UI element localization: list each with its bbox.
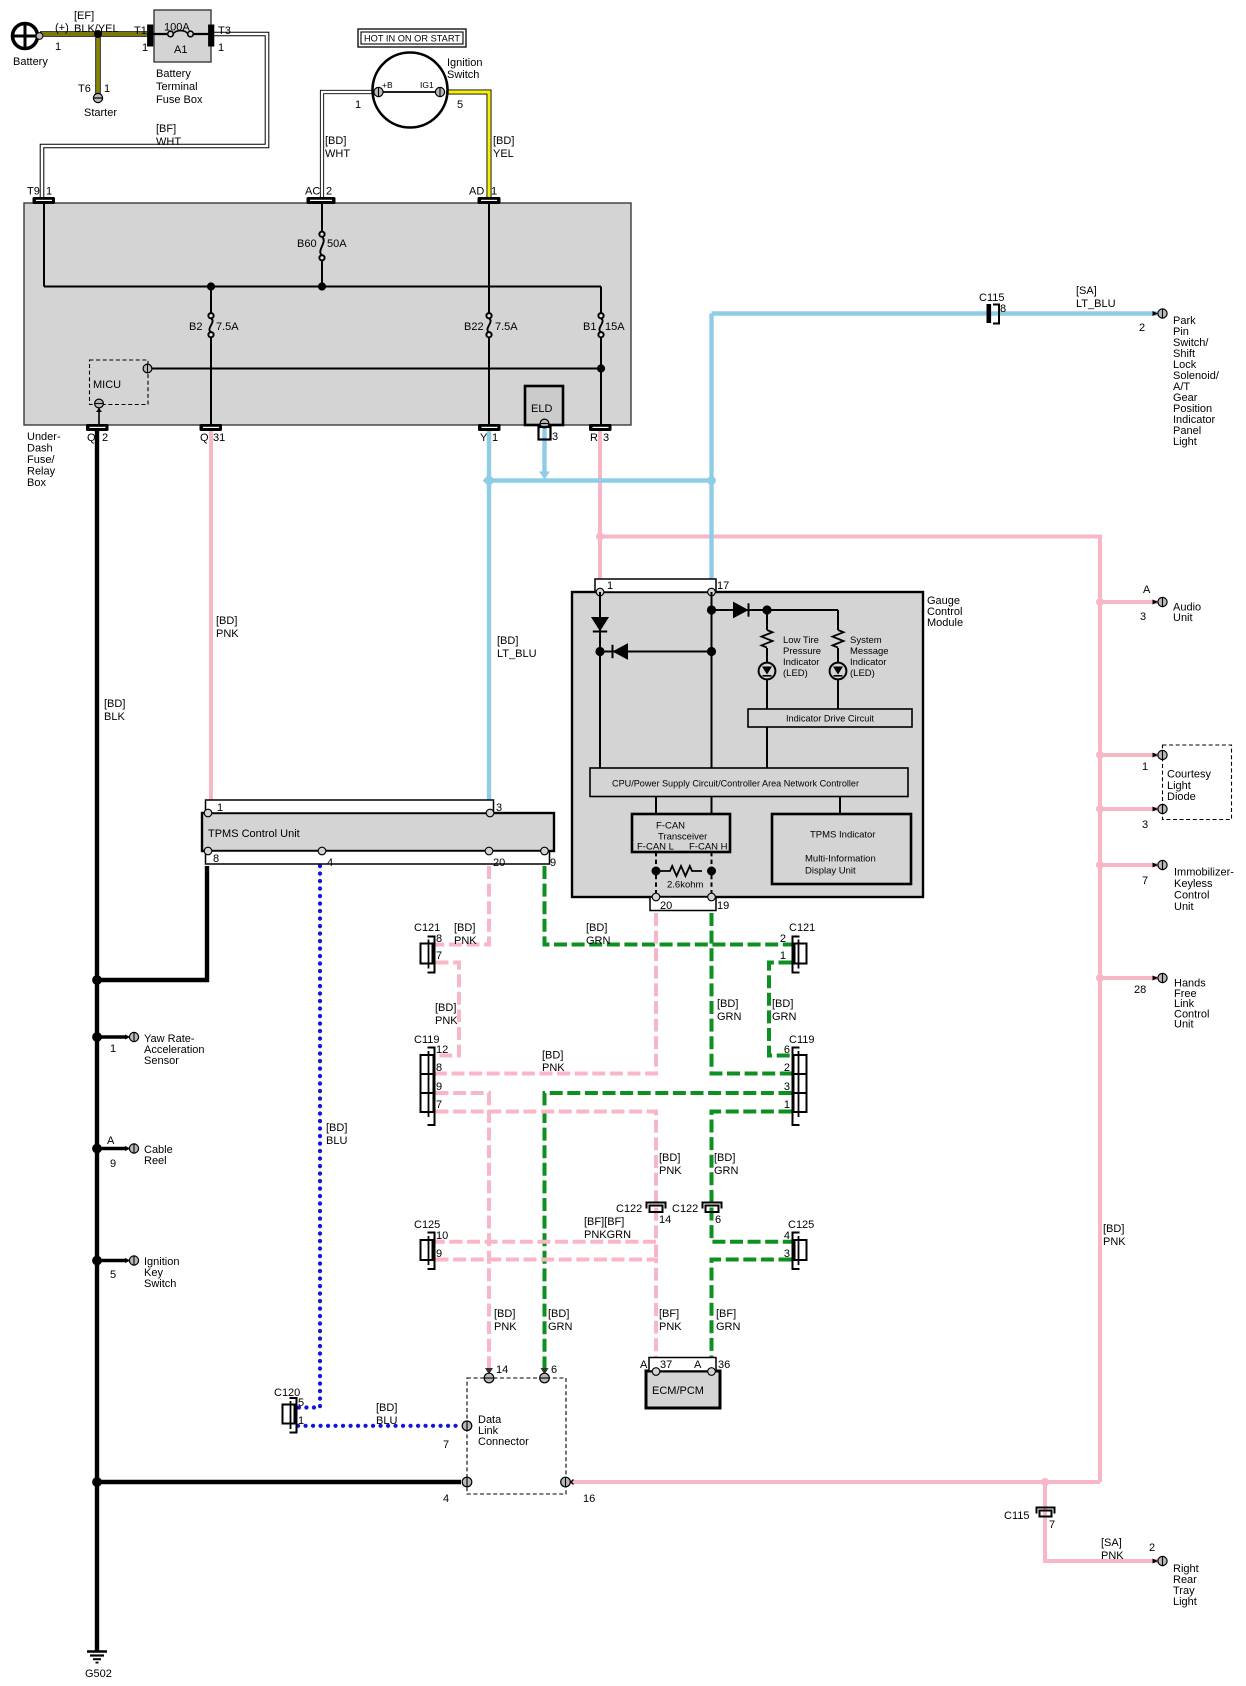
wire LT_BLU vertical to GCM pin17 / up to park pin switch	[709, 314, 713, 581]
svg-text:C119: C119	[789, 1034, 814, 1046]
svg-text:PNK: PNK	[494, 1321, 517, 1333]
svg-text:[EF]: [EF]	[74, 10, 94, 22]
svg-text:1: 1	[217, 802, 223, 814]
svg-text:PNK: PNK	[435, 1015, 458, 1027]
svg-text:[BF]: [BF]	[659, 1308, 679, 1320]
connector C125 left	[421, 1233, 435, 1270]
courtesy light diode dashed box	[1163, 745, 1232, 820]
svg-text:ECM/PCM: ECM/PCM	[652, 1385, 704, 1397]
svg-text:20: 20	[493, 857, 505, 869]
fuse B22 7.5A symbol	[486, 313, 491, 337]
MICU terminals	[143, 364, 152, 373]
svg-text:Box: Box	[27, 477, 46, 489]
svg-text:Message: Message	[850, 646, 889, 657]
wire [BD] BLU C120-1 to DLC7	[298, 1424, 462, 1428]
svg-text:T1: T1	[134, 25, 147, 37]
svg-text:Q: Q	[200, 432, 209, 444]
svg-text:R: R	[590, 432, 598, 444]
wire TPMS8 black	[99, 866, 207, 980]
svg-text:1: 1	[46, 186, 52, 198]
pink branch courtesy 1	[1100, 753, 1158, 757]
svg-text:1: 1	[142, 42, 148, 54]
wire [BD] BLK Q2 to ground G502	[95, 430, 99, 1651]
pink branch audio unit	[1100, 600, 1158, 604]
svg-text:GRN: GRN	[714, 1165, 739, 1177]
connector Y pin 1	[479, 425, 501, 431]
svg-text:MICU: MICU	[93, 379, 121, 391]
fuse B1 15A	[600, 287, 602, 425]
svg-text:Indicator Drive Circuit: Indicator Drive Circuit	[786, 714, 874, 725]
svg-text:5: 5	[298, 1397, 304, 1409]
resistors	[762, 630, 773, 648]
svg-text:Multi-Information: Multi-Information	[805, 854, 876, 865]
svg-text:YEL: YEL	[493, 148, 514, 160]
svg-text:3: 3	[603, 432, 609, 444]
svg-text:CPU/Power Supply Circuit/Contr: CPU/Power Supply Circuit/Controller Area…	[612, 779, 859, 790]
starter terminal	[93, 93, 102, 102]
svg-text:(LED): (LED)	[783, 668, 808, 679]
svg-text:Sensor: Sensor	[144, 1055, 179, 1067]
terminal courtesy light diode pin 1	[1153, 750, 1168, 759]
wire [BD]/[BF] GRN C119right-1 via C122-6 to ECM36 and C125right	[712, 1112, 792, 1242]
svg-text:Fuse Box: Fuse Box	[156, 94, 203, 106]
svg-text:1: 1	[104, 83, 110, 95]
svg-text:[BD]: [BD]	[104, 698, 125, 710]
svg-text:5: 5	[457, 99, 463, 111]
svg-text:9: 9	[550, 857, 556, 869]
F-CAN dashed stubs	[656, 852, 712, 897]
svg-text:Pressure: Pressure	[783, 646, 821, 657]
wire [BD] PNK GCM20 to C119-8	[436, 913, 657, 1074]
svg-text:1: 1	[784, 1099, 790, 1111]
connector C115 (blue wire)	[987, 304, 1000, 324]
connector C125 right	[793, 1233, 807, 1270]
svg-text:WHT: WHT	[325, 148, 350, 160]
svg-text:7.5A: 7.5A	[495, 321, 518, 333]
svg-text:7.5A: 7.5A	[216, 321, 239, 333]
wire [BD] PNK C119-9 to DLC14	[436, 1093, 490, 1368]
svg-text:2: 2	[102, 432, 108, 444]
svg-text:8: 8	[436, 1062, 442, 1074]
svg-text:19: 19	[717, 900, 729, 912]
svg-text:Fuse/: Fuse/	[27, 454, 55, 466]
ELD box	[525, 386, 563, 425]
svg-text:+B: +B	[382, 80, 393, 90]
svg-text:[BD]: [BD]	[548, 1308, 569, 1320]
svg-text:B60: B60	[297, 238, 317, 250]
svg-text:System: System	[850, 635, 882, 646]
svg-text:Switch: Switch	[447, 69, 479, 81]
connector T9 pin 1	[33, 198, 55, 204]
svg-text:[SA]: [SA]	[1076, 285, 1097, 297]
junction battery/starter	[94, 30, 102, 38]
indicator rail 1	[766, 610, 768, 709]
svg-text:8: 8	[436, 933, 442, 945]
svg-text:Courtesy: Courtesy	[1167, 769, 1212, 781]
svg-text:15A: 15A	[605, 321, 625, 333]
wire starter drop	[95, 32, 100, 95]
blue junctions	[483, 474, 496, 487]
wire T9 to bus	[43, 203, 45, 287]
svg-text:1: 1	[218, 42, 224, 54]
diode D1 down	[593, 618, 607, 630]
svg-text:37: 37	[660, 1359, 672, 1371]
svg-text:7: 7	[443, 1439, 449, 1451]
svg-text:GRN: GRN	[772, 1011, 797, 1023]
TPMS control unit box	[202, 813, 554, 851]
terminal immobilizer-keyless control unit pin 7	[1153, 860, 1168, 869]
svg-text:[BD]: [BD]	[454, 922, 475, 934]
svg-text:(LED): (LED)	[850, 668, 875, 679]
svg-text:6: 6	[551, 1364, 557, 1376]
svg-text:2: 2	[780, 933, 786, 945]
wire [SA] PNK bottom horizontal from DLC16	[569, 1480, 1100, 1484]
svg-text:T9: T9	[27, 186, 40, 198]
svg-text:PNK: PNK	[1103, 1236, 1126, 1248]
cross link with diode D2 left	[600, 651, 712, 653]
svg-text:Control: Control	[1174, 890, 1209, 902]
svg-text:2: 2	[784, 1062, 790, 1074]
LED system message	[830, 663, 847, 680]
GCM bottom connector 20/19	[650, 897, 716, 911]
svg-text:1: 1	[492, 432, 498, 444]
svg-text:Relay: Relay	[27, 466, 56, 478]
svg-text:C122: C122	[616, 1203, 642, 1215]
wire [BD] PNK Q31 to TPMS pin1	[209, 428, 213, 802]
svg-text:1: 1	[607, 580, 613, 592]
svg-text:[BD]: [BD]	[772, 998, 793, 1010]
svg-text:[BD]: [BD]	[717, 998, 738, 1010]
svg-text:7: 7	[1049, 1519, 1055, 1531]
svg-text:AD: AD	[469, 186, 484, 198]
svg-text:C120: C120	[274, 1387, 300, 1399]
wire [BD] PNK trunk to right units	[600, 537, 1100, 1483]
svg-text:1: 1	[55, 41, 61, 53]
svg-text:4: 4	[327, 857, 333, 869]
svg-text:Under-: Under-	[27, 431, 61, 443]
svg-text:2: 2	[1149, 1542, 1155, 1554]
wire LT_BLU Y1 down to TPMS pin3	[487, 428, 491, 802]
svg-text:[BD]: [BD]	[376, 1402, 397, 1414]
DLC pin 6	[540, 1373, 550, 1383]
MICU sense line	[152, 368, 601, 370]
svg-text:36: 36	[718, 1359, 730, 1371]
svg-text:BLU: BLU	[326, 1135, 347, 1147]
connector Q pin 31	[200, 425, 222, 431]
wire [BD] GRN GCM19 to C119right-2	[712, 913, 792, 1074]
svg-text:100A: 100A	[164, 22, 190, 34]
svg-text:LT_BLU: LT_BLU	[1076, 298, 1116, 310]
svg-text:5: 5	[110, 1269, 116, 1281]
svg-text:A: A	[640, 1359, 648, 1371]
svg-text:BLK/YEL: BLK/YEL	[74, 23, 119, 35]
TPMS indicator / multi-information display box	[772, 814, 911, 884]
connector AD pin 1	[478, 198, 500, 204]
svg-text:BLU: BLU	[376, 1415, 397, 1427]
svg-text:Light: Light	[1173, 436, 1197, 448]
ground G502	[87, 1650, 107, 1652]
TPMS top connector (pins 1, 3)	[204, 800, 494, 817]
wire [BD] PNK R3 down	[598, 428, 602, 580]
svg-text:[BD]: [BD]	[326, 1122, 347, 1134]
terminal right rear tray light pin 2	[1153, 1556, 1168, 1565]
svg-text:Indicator: Indicator	[850, 657, 886, 668]
svg-text:PNK: PNK	[454, 935, 477, 947]
svg-text:A1: A1	[174, 44, 187, 56]
svg-text:PNK: PNK	[542, 1062, 565, 1074]
svg-text:Unit: Unit	[1174, 1019, 1194, 1031]
bus	[44, 286, 601, 288]
fuse B22 7.5A	[488, 203, 490, 425]
svg-text:Terminal: Terminal	[156, 81, 198, 93]
svg-text:4: 4	[784, 1230, 790, 1242]
under-dash internals	[44, 203, 601, 425]
svg-text:Q: Q	[87, 432, 96, 444]
svg-text:4: 4	[443, 1493, 449, 1505]
LED low tire pressure	[759, 663, 776, 680]
terminal courtesy light diode pin 3	[1153, 804, 1168, 813]
pink junction dots	[596, 533, 604, 541]
DLC pin 4	[462, 1477, 472, 1487]
svg-text:6: 6	[784, 1044, 790, 1056]
svg-text:Starter: Starter	[84, 107, 117, 119]
svg-text:F-CAN: F-CAN	[656, 821, 685, 832]
wire [BD]/[BF] PNK C119-7 via C122-14 to ECM37 and C125	[436, 1112, 657, 1242]
wire PNK drop to C115 and right rear tray light	[1045, 1482, 1158, 1561]
svg-text:Low Tire: Low Tire	[783, 635, 819, 646]
connector C121 left	[421, 937, 435, 973]
svg-text:PNKGRN: PNKGRN	[584, 1229, 631, 1241]
terminal park pin switch pin 2	[1153, 309, 1168, 318]
connector C120 (blue dotted)	[283, 1398, 297, 1433]
svg-text:1: 1	[298, 1415, 304, 1427]
svg-text:Diode: Diode	[1167, 791, 1196, 803]
fuse A1 100A	[153, 33, 209, 35]
wire [BD] PNK TPMS20 to C121-8 (dashed)	[436, 866, 490, 945]
svg-text:Unit: Unit	[1174, 901, 1194, 913]
MICU dashed box	[90, 360, 149, 405]
battery terminal fuse box A1	[154, 10, 211, 62]
svg-text:8: 8	[1000, 303, 1006, 315]
svg-text:T6: T6	[78, 83, 91, 95]
branch yaw rate sensor	[97, 1035, 127, 1039]
svg-text:[BD]: [BD]	[435, 1002, 456, 1014]
fuse B60 50A	[321, 203, 323, 287]
svg-text:1: 1	[355, 99, 361, 111]
fuse B1 15A symbol	[598, 313, 603, 337]
MICU drop to Q2	[98, 408, 100, 425]
svg-text:B2: B2	[189, 321, 202, 333]
svg-text:[BD]: [BD]	[714, 1152, 735, 1164]
svg-text:[BD]: [BD]	[493, 135, 514, 147]
svg-text:C122: C122	[672, 1203, 698, 1215]
svg-text:12: 12	[436, 1044, 448, 1056]
svg-text:IG1: IG1	[420, 80, 434, 90]
svg-text:C115: C115	[1004, 1510, 1029, 1522]
svg-text:[BD]: [BD]	[1103, 1223, 1124, 1235]
svg-text:Battery: Battery	[13, 56, 48, 68]
svg-text:Indicator: Indicator	[783, 657, 819, 668]
left rail from pin1	[599, 592, 601, 768]
svg-text:A: A	[1143, 584, 1151, 596]
svg-text:50A: 50A	[327, 238, 347, 250]
top link to indicators with diode D3 right	[712, 609, 839, 611]
branch ignition key switch	[97, 1259, 127, 1263]
connector C122 left (on pink)	[647, 1203, 666, 1213]
svg-text:Connector: Connector	[478, 1436, 529, 1448]
svg-text:9: 9	[436, 1081, 442, 1093]
svg-text:Ignition: Ignition	[447, 57, 482, 69]
svg-text:17: 17	[717, 580, 729, 592]
svg-text:3: 3	[784, 1248, 790, 1260]
svg-text:AC: AC	[305, 186, 320, 198]
svg-text:PNK: PNK	[216, 628, 239, 640]
svg-text:T3: T3	[218, 25, 231, 37]
fuse B2 7.5A	[210, 287, 212, 425]
svg-text:3: 3	[1142, 819, 1148, 831]
svg-text:F-CAN L: F-CAN L	[637, 842, 674, 853]
connector R pin 3	[590, 425, 612, 431]
resistor 2.6kohm	[660, 866, 702, 876]
wire [BD] GRN TPMS9 to C121right-2	[545, 866, 792, 945]
DLC pin 14	[484, 1373, 494, 1383]
wire [BD] BLU TPMS pin4 to C120 (blue dotted)	[298, 866, 320, 1408]
svg-text:31: 31	[213, 432, 225, 444]
svg-text:Dash: Dash	[27, 443, 53, 455]
svg-text:2: 2	[326, 186, 332, 198]
data link connector box	[467, 1378, 566, 1494]
svg-text:8: 8	[213, 853, 219, 865]
branch cable reel	[97, 1147, 127, 1151]
hot in on or start box	[358, 29, 466, 47]
ELD pin 3 connector	[539, 427, 551, 440]
connector C121 right	[793, 937, 807, 973]
svg-text:9: 9	[436, 1248, 442, 1260]
svg-text:[SA]: [SA]	[1101, 1537, 1122, 1549]
svg-text:B22: B22	[464, 321, 484, 333]
terminal hands free link control unit pin 28	[1153, 973, 1168, 982]
svg-text:GRN: GRN	[716, 1321, 741, 1333]
svg-text:HOT IN ON OR START: HOT IN ON OR START	[364, 34, 460, 45]
svg-text:C121: C121	[789, 922, 815, 934]
connector C119 right	[793, 1048, 807, 1126]
connector T1	[148, 25, 153, 46]
svg-text:1: 1	[110, 1043, 116, 1055]
svg-text:[BF]: [BF]	[716, 1308, 736, 1320]
svg-text:LT_BLU: LT_BLU	[497, 648, 537, 660]
svg-text:A: A	[694, 1359, 702, 1371]
fuse B60 50A symbol	[319, 232, 324, 261]
svg-text:3: 3	[496, 802, 502, 814]
fuse B2 7.5A symbol	[208, 313, 213, 337]
CPU box	[590, 768, 908, 797]
svg-text:[BF][BF]: [BF][BF]	[584, 1216, 624, 1228]
svg-text:[BD]: [BD]	[494, 1308, 515, 1320]
junction dots	[596, 648, 603, 655]
svg-text:14: 14	[496, 1364, 508, 1376]
indicator rail 2	[837, 610, 839, 709]
svg-text:B1: B1	[583, 321, 596, 333]
svg-text:Reel: Reel	[144, 1155, 167, 1167]
svg-text:Battery: Battery	[156, 68, 191, 80]
svg-text:9: 9	[110, 1158, 116, 1170]
svg-text:20: 20	[660, 900, 672, 912]
pink branch immobilizer	[1100, 863, 1158, 867]
wire LT_BLU ELD3 spur	[542, 424, 546, 475]
svg-text:BLK: BLK	[104, 711, 125, 723]
pink branch courtesy 3	[1100, 807, 1158, 811]
svg-text:TPMS Control Unit: TPMS Control Unit	[208, 828, 300, 840]
svg-text:28: 28	[1134, 984, 1146, 996]
svg-text:6: 6	[715, 1214, 721, 1226]
svg-text:[BD]: [BD]	[325, 135, 346, 147]
wire [BD] WHT +B to AC2	[322, 92, 374, 199]
svg-text:ELD: ELD	[531, 403, 552, 415]
svg-text:Display Unit: Display Unit	[805, 866, 856, 877]
connector T3	[209, 25, 214, 46]
svg-text:7: 7	[436, 1099, 442, 1111]
svg-text:3: 3	[552, 431, 558, 443]
svg-text:2: 2	[1139, 322, 1145, 334]
wire [BD] GRN C119right-3 to DLC6	[545, 1093, 792, 1368]
svg-text:(+): (+)	[55, 22, 69, 34]
svg-text:[BD]: [BD]	[659, 1152, 680, 1164]
connector C122 right (on green)	[703, 1203, 722, 1213]
svg-text:C125: C125	[788, 1219, 814, 1231]
connector C119 left	[421, 1048, 435, 1126]
svg-text:Keyless: Keyless	[1174, 878, 1213, 890]
F-CAN transceiver box	[632, 814, 730, 852]
svg-text:2.6kohm: 2.6kohm	[667, 880, 704, 891]
gauge control module box	[572, 592, 923, 897]
svg-text:[BF]: [BF]	[156, 123, 176, 135]
svg-text:3: 3	[1140, 611, 1146, 623]
ECM/PCM box	[646, 1371, 720, 1408]
wire black bus to DLC4	[97, 1480, 461, 1484]
svg-text:PNK: PNK	[659, 1165, 682, 1177]
right rail from pin17	[711, 592, 713, 768]
DLC pin 16	[561, 1477, 574, 1487]
svg-text:7: 7	[1142, 875, 1148, 887]
wire BLK/YEL battery to T1 (yellow w/ black edge)	[40, 31, 150, 36]
battery	[13, 24, 38, 49]
svg-text:[BD]: [BD]	[586, 922, 607, 934]
svg-text:[BD]: [BD]	[497, 635, 518, 647]
svg-text:GRN: GRN	[717, 1011, 742, 1023]
wire LT_BLU horizontal to GCM17 column	[489, 478, 712, 482]
svg-text:Unit: Unit	[1173, 612, 1193, 624]
connector Q pin 2	[87, 425, 109, 431]
wire [BD] GRN C121right-1 to C119right-6	[769, 963, 792, 1056]
svg-text:1: 1	[780, 950, 786, 962]
svg-text:PNK: PNK	[659, 1321, 682, 1333]
TPMS bottom connector (pins 8, 4, 20, 9)	[204, 847, 549, 864]
svg-text:14: 14	[659, 1214, 671, 1226]
wire [BF] WHT T3 to T9 (white w/ black edges)	[42, 34, 267, 199]
svg-text:Module: Module	[927, 617, 963, 629]
under-dash fuse/relay box	[24, 203, 631, 425]
svg-text:Light: Light	[1173, 1596, 1197, 1608]
svg-text:Switch: Switch	[144, 1278, 176, 1290]
svg-text:[BD]: [BD]	[542, 1050, 563, 1062]
pink branch hands free	[1100, 976, 1158, 980]
wire [SA] LT_BLU to park pin switch	[712, 311, 1159, 315]
svg-text:GRN: GRN	[548, 1321, 573, 1333]
svg-text:A: A	[107, 1135, 115, 1147]
svg-text:GRN: GRN	[586, 935, 611, 947]
ignition switch	[373, 53, 448, 128]
connector AC pin 2	[307, 198, 335, 204]
